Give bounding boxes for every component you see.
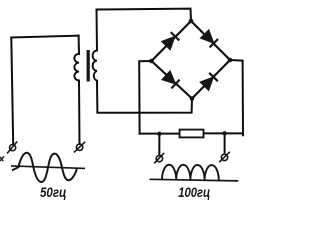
wire bridge edge bottom-right [192,60,230,99]
waveform output rectified 100Hz [162,165,219,181]
wire primary top [11,36,78,38]
wire stub to terminal out left [158,134,160,156]
wire bridge edge left-top [152,21,192,61]
node bridge bottom junction [190,96,195,101]
wire dc bottom rail left [140,133,180,135]
diode D4 [200,73,218,91]
terminal primary left [7,141,17,153]
terminal output right [219,152,230,162]
transformer T1 primary winding [74,54,79,81]
transformer T1 secondary winding [93,51,97,81]
transformer T1 core [87,50,90,82]
waveform input sine 50Hz [12,153,77,182]
svg-text:50гц: 50гц [40,185,67,200]
wire stub to terminal out right [224,133,226,152]
node bridge top junction [189,19,194,24]
node bridge left junction [149,59,154,64]
edge artifact mark [0,156,4,161]
svg-text:100гц: 100гц [178,185,210,200]
wire primary right lower [78,81,81,144]
waveform input axis [11,166,85,169]
wire secondary bottom to bridge [97,81,192,113]
terminal primary right [74,142,85,153]
diode D1 [162,32,180,50]
resistor R load [180,130,204,138]
wire secondary top to bridge [97,9,192,51]
node rail left junction [157,132,161,136]
diode D2 [200,30,218,48]
node rail right junction [222,131,226,135]
wire dc bottom rail right [204,132,243,134]
node bridge right junction [228,58,233,63]
wire dc plus from right node [230,60,243,135]
wire bridge edge left-bottom [152,61,193,99]
wire bridge edge top-right [191,21,230,60]
wire primary right upper [78,36,80,54]
diode D3 [162,71,180,89]
wire primary left side [11,38,13,145]
terminal output left [154,153,164,163]
waveform output axis [150,179,239,181]
wire dc minus from left node [139,61,151,134]
